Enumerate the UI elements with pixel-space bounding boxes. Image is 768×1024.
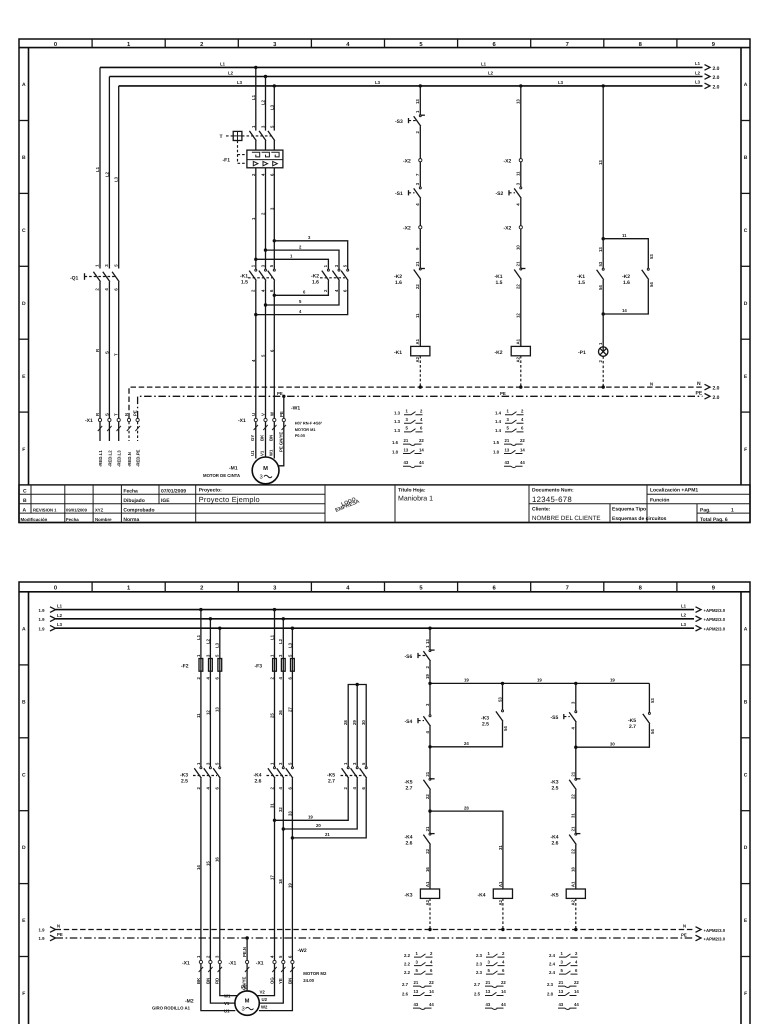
svg-text:2.5: 2.5 [552,786,559,792]
svg-text:2: 2 [430,951,433,956]
svg-text:14: 14 [520,447,525,452]
svg-text:1: 1 [95,264,100,267]
svg-text:Fecha: Fecha [123,489,138,495]
svg-text:MOTOR DE CINTA: MOTOR DE CINTA [203,473,240,478]
svg-text:Título Hoja:: Título Hoja: [398,488,426,494]
svg-text:2.7: 2.7 [328,779,335,785]
wires bus to F2 [196,610,220,659]
wire L2 bus p2 [39,613,695,622]
svg-text:4: 4 [205,677,210,680]
svg-text:1.5: 1.5 [493,440,500,445]
svg-text:3: 3 [104,264,109,267]
svg-text:1: 1 [269,762,274,765]
svg-text:4: 4 [260,289,265,292]
svg-text:L2: L2 [278,638,283,644]
svg-text:6: 6 [420,426,423,431]
svg-text:R: R [95,412,100,416]
svg-text:D: D [22,845,26,851]
svg-text:1.6: 1.6 [312,280,319,286]
svg-text:XYZ: XYZ [95,507,104,512]
svg-text:L2: L2 [104,171,109,177]
svg-text:1: 1 [323,264,328,267]
svg-text:F: F [22,447,25,453]
svg-text:D: D [744,845,748,851]
svg-text:13: 13 [425,639,430,644]
svg-text:6: 6 [575,968,578,973]
svg-text:2: 2 [598,360,603,363]
svg-text:-S4: -S4 [405,719,413,725]
svg-text:Fecha: Fecha [66,517,79,522]
svg-text:30: 30 [610,741,615,746]
wire L3 bus p2 [39,622,695,631]
svg-text:L3: L3 [57,622,63,627]
svg-text:MOTOR M2: MOTOR M2 [303,971,327,976]
svg-text:1.4: 1.4 [495,419,502,424]
svg-text:20: 20 [316,823,321,828]
svg-text:-RED.L2: -RED.L2 [107,450,112,467]
svg-text:2.2: 2.2 [404,961,411,966]
svg-text:L3: L3 [375,80,381,85]
wire L1 drop to F1 [255,67,257,130]
svg-text:2.2: 2.2 [404,953,411,958]
svg-text:W: W [269,411,274,416]
fuse group F3 [255,654,295,680]
svg-text:-S2: -S2 [496,191,504,197]
svg-text:1.9: 1.9 [39,936,46,941]
interlock contact K2 NC [394,261,425,346]
terminal X2 c [504,159,523,187]
svg-text:2.5: 2.5 [474,991,481,996]
svg-text:IGE: IGE [161,498,170,504]
svg-text:YE: YE [278,978,283,984]
svg-text:W1: W1 [268,449,273,456]
wire L2 drop to F1 [265,77,267,131]
svg-text:53: 53 [497,697,502,702]
wires bus to F3 [269,610,292,659]
stop button S6 [405,645,435,684]
terminal X2 b [403,226,422,268]
svg-text:1.9: 1.9 [39,928,46,933]
svg-text:5: 5 [287,762,292,765]
aux contact K2 NO [622,254,654,287]
svg-text:2: 2 [269,677,274,680]
svg-text:L2: L2 [57,613,63,618]
svg-text:RD: RD [215,978,220,984]
svg-text:T: T [114,353,119,356]
svg-text:Localización +APM1: Localización +APM1 [650,488,698,494]
svg-text:A1: A1 [425,881,430,887]
pilot lamp P1 [578,342,608,389]
svg-text:-Q1: -Q1 [70,276,79,282]
svg-text:22: 22 [516,284,521,289]
svg-text:C: C [744,228,748,234]
svg-text:-K5: -K5 [551,892,559,898]
svg-text:Documento Num:: Documento Num: [532,488,574,494]
svg-text:L2: L2 [695,70,701,75]
svg-text:A: A [744,82,748,88]
svg-text:-M1: -M1 [229,466,238,472]
svg-text:1: 1 [406,409,409,414]
svg-text:V2: V2 [260,989,266,994]
svg-text:10: 10 [516,245,521,250]
drawing frame page1 [19,39,750,523]
svg-text:-X2: -X2 [403,159,411,165]
svg-text:-F3: -F3 [255,664,263,670]
svg-text:2.6: 2.6 [552,840,559,846]
motor M1 [203,457,279,484]
svg-text:16: 16 [215,857,220,862]
cable label W2 [298,948,327,983]
svg-text:3: 3 [278,762,283,765]
svg-text:44: 44 [574,1002,579,1007]
svg-text:-X1: -X1 [182,960,190,966]
bus arrows right with dest refs [705,65,720,91]
svg-text:6: 6 [361,787,366,790]
svg-text:A1: A1 [415,338,420,344]
lamp branch rejoin [602,280,649,352]
svg-text:13: 13 [486,989,491,994]
svg-text:1: 1 [507,409,510,414]
svg-text:L1: L1 [481,62,487,67]
svg-text:21: 21 [414,980,419,985]
svg-text:-S1: -S1 [395,191,403,197]
svg-text:2: 2 [420,409,423,414]
wires K3 to X1 [196,778,220,962]
svg-text:9: 9 [712,585,716,592]
svg-text:3: 3 [278,654,283,657]
svg-text:6: 6 [113,288,118,291]
svg-text:32: 32 [278,807,283,812]
svg-text:-RED.N: -RED.N [127,452,132,467]
svg-text:7: 7 [566,42,569,48]
drawing frame page2 [19,582,750,1024]
svg-text:2: 2 [261,212,266,215]
svg-text:2.0: 2.0 [713,395,720,401]
start button S5 [551,683,577,778]
node lamp branch split [602,233,649,268]
svg-text:31: 31 [571,813,576,818]
svg-text:3: 3 [205,654,210,657]
terminal strip X1 motor [238,411,285,424]
terminal strip X1 left [85,410,139,424]
rotated wire numbers between F1 and K1 [251,207,274,220]
svg-text:U: U [251,413,256,416]
svg-text:2: 2 [415,131,420,134]
svg-text:2: 2 [196,677,201,680]
motor M2 [152,991,259,1015]
svg-text:2.5: 2.5 [482,722,489,728]
svg-text:5: 5 [278,955,283,958]
svg-text:-K2: -K2 [495,350,503,356]
svg-text:A1: A1 [516,338,521,344]
svg-text:V1: V1 [224,1001,230,1006]
start button S1 [395,182,421,226]
svg-text:1.8: 1.8 [392,449,399,454]
svg-text:19: 19 [610,678,615,683]
svg-text:21: 21 [559,980,564,985]
svg-text:3: 3 [273,585,277,592]
svg-text:43: 43 [486,1002,491,1007]
coil K4 [478,881,513,931]
svg-text:-F2: -F2 [181,664,189,670]
svg-text:-W2: -W2 [298,948,307,954]
svg-text:3: 3 [260,474,263,481]
svg-text:4: 4 [346,586,350,592]
svg-text:N: N [697,381,701,387]
svg-text:6: 6 [492,585,496,592]
coil K2 [495,338,531,388]
svg-text:16: 16 [425,867,430,872]
rotated wire numbers above X1 motor [251,349,274,362]
node L1 junction [254,66,257,69]
svg-text:Dibujado: Dibujado [123,498,144,504]
svg-text:30: 30 [361,720,366,725]
svg-text:-X1: -X1 [256,960,264,966]
svg-text:-X2: -X2 [504,226,512,232]
svg-text:C: C [22,228,26,234]
svg-text:M: M [245,999,250,1005]
svg-text:2: 2 [425,666,430,669]
svg-text:-K4: -K4 [478,892,486,898]
svg-text:22: 22 [429,980,434,985]
svg-text:15: 15 [205,861,210,866]
svg-text:Modificación: Modificación [21,517,48,522]
svg-text:09/01/2009: 09/01/2009 [66,507,88,512]
rotated wire labels left feeder [95,166,119,182]
svg-text:L1: L1 [220,62,226,67]
svg-text:44: 44 [419,460,424,465]
PE net label [277,381,653,396]
svg-text:Maniobra 1: Maniobra 1 [398,495,433,503]
svg-text:22: 22 [419,438,424,443]
control drop from L3 [425,628,430,649]
contactor K1 main contacts [240,264,275,292]
contact cross-reference table K2 [493,409,525,468]
svg-text:21: 21 [516,261,521,266]
coil K5 [551,881,586,931]
svg-text:4: 4 [420,417,423,422]
star point bridge above K5 [343,683,366,767]
node L3 junctions [273,84,605,87]
svg-text:-W1: -W1 [291,406,300,412]
svg-text:0: 0 [54,585,57,592]
svg-text:V: V [261,413,266,416]
svg-text:H07 RN-F 4G6²: H07 RN-F 4G6² [295,421,323,426]
svg-text:31: 31 [269,803,274,808]
svg-text:GY: GY [250,435,255,441]
svg-text:5: 5 [113,264,118,267]
svg-text:4: 4 [278,787,283,790]
svg-text:5: 5 [343,264,348,267]
disconnector Q1 [70,264,119,420]
svg-text:2: 2 [200,585,203,592]
svg-text:1.3: 1.3 [394,419,401,424]
svg-text:L1: L1 [681,603,687,608]
svg-text:PE: PE [696,391,703,397]
svg-text:-RED.PE: -RED.PE [136,449,141,467]
svg-text:13: 13 [404,447,409,452]
svg-text:43: 43 [559,1002,564,1007]
svg-text:22: 22 [501,980,506,985]
svg-text:14: 14 [429,989,434,994]
svg-text:6: 6 [287,955,292,958]
svg-text:PE: PE [241,985,247,990]
svg-text:11: 11 [196,713,201,718]
wire L1 bus [100,67,703,268]
svg-text:Nombre: Nombre [95,517,112,522]
svg-text:-X1: -X1 [238,418,246,424]
svg-text:Total Pag. 6: Total Pag. 6 [700,517,728,523]
svg-text:43: 43 [404,460,409,465]
svg-text:4: 4 [205,787,210,790]
svg-text:22: 22 [571,794,576,799]
svg-text:F: F [744,447,747,453]
svg-text:13: 13 [415,99,420,104]
svg-text:L1: L1 [57,604,63,609]
svg-text:-X1: -X1 [85,418,93,424]
svg-text:22: 22 [415,284,420,289]
svg-text:2: 2 [343,787,348,790]
svg-text:7: 7 [415,173,420,176]
svg-text:L3: L3 [695,80,701,85]
svg-text:54: 54 [503,726,508,731]
svg-text:3: 3 [261,125,266,128]
svg-text:1: 1 [196,955,201,958]
svg-text:N: N [57,924,60,929]
svg-text:L3: L3 [114,176,119,182]
svg-text:22: 22 [571,848,576,853]
svg-text:11: 11 [622,233,627,238]
svg-text:3: 3 [215,955,220,958]
svg-text:E: E [744,918,748,924]
svg-text:6: 6 [269,289,274,292]
svg-text:2.7: 2.7 [402,982,409,987]
motor breaker F1 [220,131,283,176]
svg-text:4: 4 [299,309,302,314]
svg-text:6: 6 [269,349,274,352]
svg-text:22: 22 [425,848,430,853]
svg-text:4: 4 [571,727,576,730]
svg-text:2: 2 [323,289,328,292]
wire L3 bus [119,86,703,269]
svg-text:2.3: 2.3 [476,953,483,958]
svg-text:E: E [22,918,26,924]
svg-text:12: 12 [516,313,521,318]
svg-text:5: 5 [269,264,274,267]
svg-text:U1: U1 [224,1009,230,1014]
svg-text:L3: L3 [269,104,274,110]
svg-text:2.0: 2.0 [713,386,720,392]
aux contact K1 NO [577,239,604,290]
svg-text:1: 1 [415,110,420,113]
svg-text:6: 6 [343,289,348,292]
svg-text:3: 3 [334,264,339,267]
svg-text:3: 3 [260,264,265,267]
svg-text:2.8: 2.8 [547,991,554,996]
motor cable wires p2 [196,964,295,1014]
svg-text:28: 28 [343,720,348,725]
svg-text:-F1: -F1 [223,158,231,164]
node L2 junction [264,75,267,78]
svg-text:1.5: 1.5 [241,280,248,286]
svg-text:53: 53 [649,254,654,259]
svg-text:19: 19 [425,674,430,679]
svg-text:Cliente:: Cliente: [532,506,551,512]
svg-text:1: 1 [343,762,348,765]
svg-text:8: 8 [639,585,643,592]
svg-text:MOTOR M1: MOTOR M1 [295,427,317,432]
svg-text:3: 3 [561,959,564,964]
svg-text:PE: PE [681,932,687,937]
svg-text:5: 5 [561,968,564,973]
svg-text:2: 2 [521,409,524,414]
svg-text:2.7: 2.7 [474,982,481,987]
svg-text:44: 44 [501,1002,506,1007]
svg-text:A2: A2 [498,899,503,905]
svg-text:L1: L1 [269,634,274,640]
svg-text:54: 54 [650,729,655,734]
svg-text:11: 11 [415,313,420,318]
svg-text:4: 4 [261,173,266,176]
svg-text:A1: A1 [571,881,576,887]
svg-text:14: 14 [196,865,201,870]
svg-text:Norma: Norma [123,517,139,523]
svg-text:1: 1 [251,217,256,220]
svg-text:L2: L2 [205,638,210,644]
svg-text:-K1: -K1 [394,350,402,356]
svg-text:12345-678: 12345-678 [532,495,572,504]
svg-text:9: 9 [415,247,420,250]
svg-text:5: 5 [269,125,274,128]
svg-text:L3: L3 [287,642,292,648]
wires F1 to K1 [256,168,274,269]
svg-text:PE: PE [133,410,138,416]
svg-text:L2: L2 [228,71,234,76]
svg-text:5: 5 [215,762,220,765]
svg-text:A1: A1 [498,881,503,887]
svg-text:3: 3 [516,182,521,185]
svg-text:F: F [22,991,25,997]
svg-text:13: 13 [516,99,521,104]
svg-text:N: N [650,381,653,386]
interlock K4 NC on K3 branch [405,826,435,889]
svg-text:L3: L3 [558,80,564,85]
svg-text:3: 3 [415,182,420,185]
svg-text:2: 2 [196,787,201,790]
svg-text:W2: W2 [261,1005,268,1010]
contact cross-reference table K5 [547,951,579,1010]
svg-text:E: E [744,374,748,380]
svg-text:2.2: 2.2 [404,970,411,975]
svg-text:28: 28 [464,805,469,810]
svg-text:1: 1 [416,951,419,956]
svg-text:22: 22 [574,980,579,985]
svg-text:25: 25 [269,713,274,718]
svg-text:31: 31 [498,845,503,850]
interlock K3 NC on K5 branch [551,771,581,833]
svg-text:2: 2 [251,289,256,292]
svg-text:A: A [744,627,748,633]
svg-text:E: E [22,374,26,380]
control bus p2 [425,674,650,685]
svg-text:5: 5 [406,426,409,431]
svg-text:1.9: 1.9 [39,626,46,631]
wire L2 bus [109,77,702,269]
svg-text:22: 22 [425,794,430,799]
svg-text:33: 33 [287,811,292,816]
svg-text:4: 4 [251,359,256,362]
svg-text:N: N [683,923,686,928]
